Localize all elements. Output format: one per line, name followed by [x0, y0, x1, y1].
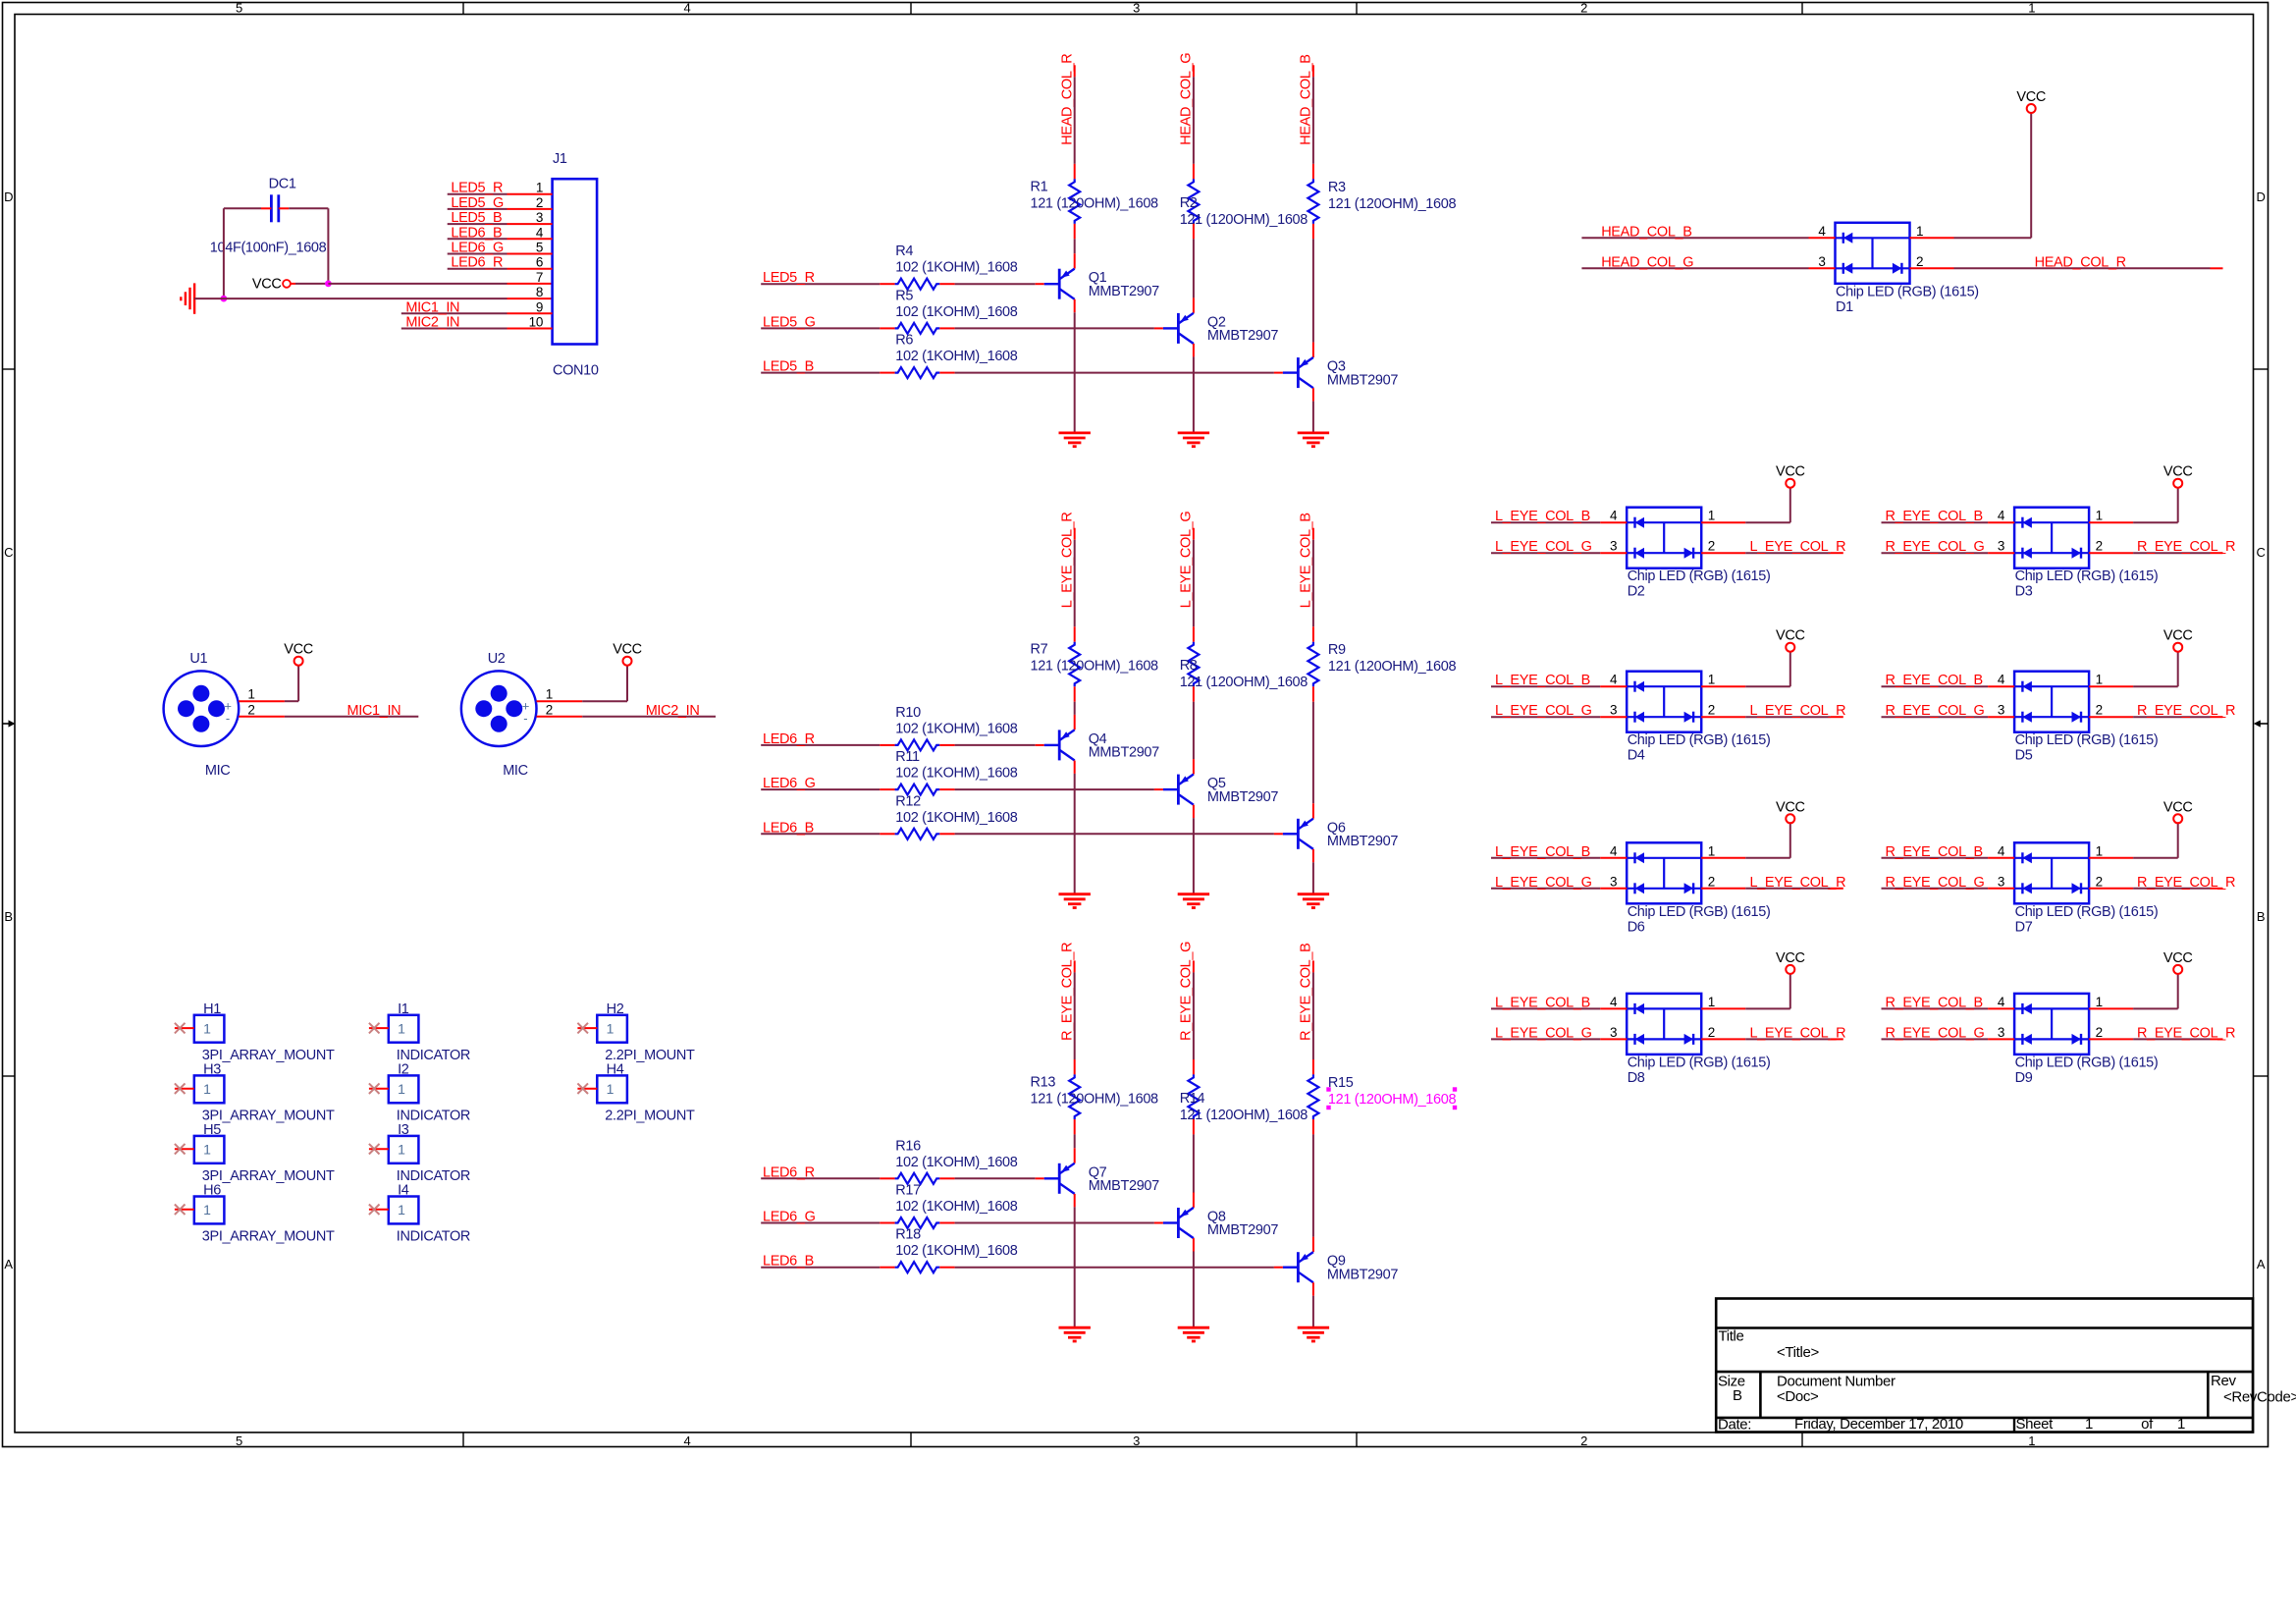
svg-text:R10: R10: [895, 705, 921, 721]
svg-text:H1: H1: [203, 1001, 221, 1017]
svg-text:R_EYE_COL_B: R_EYE_COL_B: [1886, 995, 1983, 1010]
mount part H6 3PI_ARRAY_MOUNT: [194, 1197, 225, 1224]
LED package D9 Chip LED (RGB) (1615): [2014, 994, 2089, 1055]
svg-text:3: 3: [1998, 703, 2004, 718]
svg-text:8: 8: [536, 285, 543, 299]
wire input net LED6_B to Q9 base: [761, 1267, 1283, 1269]
label R16 value: [895, 1138, 1017, 1170]
wire net LED5_R to J1 pin 1: [448, 193, 553, 195]
wire input net LED6_R to Q4 base: [761, 744, 1043, 746]
svg-text:102 (1KOHM)_1608: 102 (1KOHM)_1608: [895, 1199, 1017, 1215]
svg-text:L_EYE_COL_B: L_EYE_COL_B: [1495, 509, 1590, 524]
transistor Q1 MMBT2907: [1044, 269, 1159, 299]
wire rail L_EYE_COL_B upper: [1312, 528, 1314, 642]
svg-text:2: 2: [2096, 1025, 2103, 1040]
svg-text:B: B: [2257, 909, 2265, 924]
resistor R7: [1069, 642, 1080, 687]
svg-text:2: 2: [536, 195, 543, 210]
svg-text:H3: H3: [203, 1062, 221, 1078]
svg-text:R16: R16: [895, 1138, 921, 1154]
power symbol VCC above U2: [623, 657, 632, 666]
diode blue in D5 (pin4): [2021, 681, 2023, 692]
svg-text:HEAD_COL_R: HEAD_COL_R: [2035, 254, 2126, 270]
wire D8 pin 1 to VCC: [1701, 973, 1790, 1008]
wire input net LED6_B to Q6 base: [761, 833, 1283, 835]
svg-text:MIC2_IN: MIC2_IN: [405, 315, 459, 331]
svg-text:A: A: [2257, 1257, 2266, 1271]
wire D6 pin 1 to VCC: [1701, 823, 1790, 858]
label R17 value: [895, 1183, 1017, 1216]
svg-text:R_EYE_COL_G: R_EYE_COL_G: [1886, 539, 1985, 555]
wire net L_EYE_COL_G to D2 pin 3: [1491, 552, 1627, 554]
svg-text:R5: R5: [895, 288, 913, 303]
svg-text:-: -: [226, 711, 230, 726]
svg-text:LED6_R: LED6_R: [763, 1164, 815, 1180]
wire net MIC2_IN from U2 pin 2: [537, 716, 717, 718]
svg-text:MMBT2907: MMBT2907: [1089, 745, 1159, 761]
svg-text:VCC: VCC: [252, 276, 282, 292]
wire VCC net to J1 pin 7: [328, 283, 552, 285]
transistor Q3 MMBT2907: [1283, 357, 1398, 388]
resistor R12: [895, 829, 940, 839]
wire rail HEAD_COL_G upper: [1193, 65, 1195, 179]
svg-text:HEAD_COL_G: HEAD_COL_G: [1601, 254, 1693, 270]
ground below Q5: [1178, 893, 1209, 895]
svg-text:VCC: VCC: [2163, 464, 2193, 480]
mount part H1 3PI_ARRAY_MOUNT: [194, 1015, 225, 1043]
resistor R15: [1308, 1074, 1318, 1119]
label D7 part name: [2015, 904, 2159, 936]
diode green in D9 (pin3): [2021, 1034, 2023, 1045]
wire rail L_EYE_COL_G between R8 and Q5: [1193, 686, 1195, 774]
diode blue in D9 (pin4): [2021, 1003, 2023, 1014]
selection handles R15 value: [1326, 1087, 1457, 1109]
svg-text:Chip LED (RGB) (1615): Chip LED (RGB) (1615): [1628, 732, 1771, 748]
wire net R_EYE_COL_B to D7 pin 4: [1882, 857, 2015, 859]
power symbol VCC above D5: [2173, 643, 2182, 652]
wire net L_EYE_COL_R from D8 pin 2: [1701, 1038, 1843, 1040]
svg-text:LED6_R: LED6_R: [763, 731, 815, 747]
resistor R5: [895, 323, 940, 334]
svg-text:L_EYE_COL_B: L_EYE_COL_B: [1299, 513, 1314, 608]
diode red in D4 (pin2): [1692, 712, 1694, 723]
svg-text:D: D: [4, 189, 13, 204]
wire net R_EYE_COL_R from D3 pin 2: [2089, 552, 2222, 554]
svg-text:2: 2: [2096, 539, 2103, 554]
svg-text:MIC1_IN: MIC1_IN: [347, 703, 401, 719]
wire net HEAD_COL_R from D1 pin 2: [1910, 267, 2223, 269]
svg-text:1: 1: [398, 1081, 405, 1097]
resistor R17: [895, 1217, 940, 1228]
resistor R13: [1069, 1074, 1080, 1119]
svg-text:1: 1: [1916, 224, 1923, 239]
wire D2 pin 1 to VCC: [1701, 487, 1790, 522]
svg-text:1: 1: [2028, 0, 2035, 15]
diode red in D3 (pin2): [2080, 548, 2082, 559]
wire D5 pin 1 to VCC: [2089, 651, 2178, 686]
wire net R_EYE_COL_B to D5 pin 4: [1882, 685, 2015, 687]
svg-text:3: 3: [1998, 874, 2004, 889]
wire rail R_EYE_COL_G between R14 and Q8: [1193, 1119, 1195, 1208]
svg-text:I4: I4: [398, 1183, 409, 1199]
wire rail HEAD_COL_R upper: [1074, 65, 1076, 179]
svg-text:R_EYE_COL_R: R_EYE_COL_R: [2137, 539, 2235, 555]
svg-text:4: 4: [684, 0, 691, 15]
mount part I1 INDICATOR: [389, 1015, 419, 1043]
svg-text:D: D: [2256, 189, 2265, 204]
svg-text:L_EYE_COL_G: L_EYE_COL_G: [1495, 703, 1592, 719]
diode red in D5 (pin2): [2080, 712, 2082, 723]
wire Q1 collector to ground: [1074, 299, 1076, 433]
svg-text:6: 6: [536, 255, 543, 270]
svg-text:D3: D3: [2015, 584, 2033, 600]
svg-text:2: 2: [1580, 1434, 1587, 1448]
mount part H3 3PI_ARRAY_MOUNT: [194, 1075, 225, 1103]
svg-text:VCC: VCC: [2016, 89, 2046, 105]
connector J1 CON10: [553, 151, 599, 379]
svg-text:R_EYE_COL_G: R_EYE_COL_G: [1886, 1025, 1985, 1041]
svg-text:4: 4: [1610, 673, 1618, 687]
transistor Q6 MMBT2907: [1283, 819, 1398, 849]
wire rail HEAD_COL_R between R1 and Q1: [1074, 224, 1076, 269]
ground below Q4: [1059, 893, 1091, 895]
svg-text:<Title>: <Title>: [1777, 1344, 1819, 1361]
ground below Q1: [1059, 431, 1091, 434]
svg-text:VCC: VCC: [2163, 799, 2193, 815]
diode green in D7 (pin3): [2021, 883, 2023, 893]
diode green in D1 (pin3): [1842, 263, 1844, 274]
svg-text:D8: D8: [1628, 1070, 1645, 1086]
svg-text:3PI_ARRAY_MOUNT: 3PI_ARRAY_MOUNT: [202, 1168, 335, 1184]
svg-text:I3: I3: [398, 1122, 409, 1138]
svg-text:1: 1: [2028, 1434, 2035, 1448]
wire input net LED5_G to Q2 base: [761, 327, 1163, 329]
svg-text:4: 4: [684, 1434, 691, 1448]
svg-text:3: 3: [1818, 254, 1825, 269]
wire net L_EYE_COL_B to D2 pin 4: [1491, 521, 1627, 523]
svg-text:A: A: [4, 1257, 13, 1271]
svg-text:2: 2: [2096, 874, 2103, 889]
wire net R_EYE_COL_R from D5 pin 2: [2089, 716, 2222, 718]
resistor R14: [1188, 1074, 1199, 1119]
svg-text:Chip LED (RGB) (1615): Chip LED (RGB) (1615): [1628, 568, 1771, 584]
svg-text:L_EYE_COL_G: L_EYE_COL_G: [1495, 875, 1592, 891]
svg-text:L_EYE_COL_R: L_EYE_COL_R: [1750, 703, 1846, 719]
svg-text:LED6_G: LED6_G: [763, 1210, 816, 1225]
svg-text:DC1: DC1: [269, 177, 296, 192]
label D4 part name: [1628, 732, 1771, 764]
svg-text:MIC: MIC: [503, 763, 528, 779]
svg-text:Chip LED (RGB) (1615): Chip LED (RGB) (1615): [1628, 1055, 1771, 1070]
wire net R_EYE_COL_G to D7 pin 3: [1882, 888, 2015, 890]
svg-text:2: 2: [1708, 1025, 1715, 1040]
svg-text:4: 4: [1610, 509, 1618, 523]
power symbol VCC above D4: [1786, 643, 1794, 652]
label D5 part name: [2015, 732, 2159, 764]
wire net MIC2_IN to J1 pin 10: [401, 328, 553, 330]
wire net L_EYE_COL_G to D4 pin 3: [1491, 716, 1627, 718]
wire net LED5_B to J1 pin 3: [448, 223, 553, 225]
LED package D7 Chip LED (RGB) (1615): [2014, 842, 2089, 903]
svg-text:4: 4: [1998, 673, 2005, 687]
svg-text:LED6_B: LED6_B: [451, 225, 502, 241]
svg-text:I1: I1: [398, 1001, 409, 1017]
svg-text:3PI_ARRAY_MOUNT: 3PI_ARRAY_MOUNT: [202, 1048, 335, 1063]
svg-text:2: 2: [546, 703, 553, 718]
power symbol VCC above D2: [1786, 479, 1794, 488]
diode red in D7 (pin2): [2080, 883, 2082, 893]
wire rail HEAD_COL_B upper: [1312, 65, 1314, 179]
svg-text:1: 1: [2096, 843, 2103, 858]
svg-text:H6: H6: [203, 1183, 221, 1199]
svg-text:Sheet: Sheet: [2016, 1416, 2055, 1433]
svg-text:CON10: CON10: [553, 363, 599, 379]
svg-text:3: 3: [536, 210, 543, 225]
svg-text:1: 1: [536, 181, 543, 195]
svg-text:L_EYE_COL_G: L_EYE_COL_G: [1495, 1025, 1592, 1041]
mount part H5 3PI_ARRAY_MOUNT: [194, 1136, 225, 1163]
wire rail R_EYE_COL_G upper: [1193, 960, 1195, 1074]
wire net R_EYE_COL_B to D9 pin 4: [1882, 1007, 2015, 1009]
wire net LED5_G to J1 pin 2: [448, 208, 553, 210]
svg-text:1: 1: [398, 1020, 405, 1036]
svg-text:4: 4: [1998, 995, 2005, 1009]
svg-text:7: 7: [536, 270, 543, 285]
diode green in D6 (pin3): [1633, 883, 1635, 893]
wire rail L_EYE_COL_R upper: [1074, 528, 1076, 642]
svg-text:Friday, December 17, 2010: Friday, December 17, 2010: [1794, 1416, 1963, 1433]
ground below Q8: [1178, 1326, 1209, 1329]
LED package D8 Chip LED (RGB) (1615): [1627, 994, 1701, 1055]
svg-text:B: B: [1733, 1387, 1742, 1404]
transistor Q5 MMBT2907: [1163, 775, 1278, 805]
svg-text:LED6_G: LED6_G: [451, 241, 504, 256]
svg-text:1: 1: [247, 687, 254, 702]
svg-text:VCC: VCC: [1776, 628, 1805, 644]
wire Q5 collector to ground: [1193, 805, 1195, 894]
svg-text:LED6_B: LED6_B: [763, 820, 814, 836]
diode blue in D7 (pin4): [2021, 852, 2023, 863]
wire input net LED5_R to Q1 base: [761, 283, 1043, 285]
svg-text:121 (120OHM)_1608: 121 (120OHM)_1608: [1180, 1108, 1308, 1123]
svg-text:Chip LED (RGB) (1615): Chip LED (RGB) (1615): [2015, 732, 2159, 748]
diode green in D2 (pin3): [1633, 548, 1635, 559]
diode red in D8 (pin2): [1692, 1034, 1694, 1045]
label R5 value: [895, 288, 1017, 320]
title block: [1716, 1299, 2296, 1434]
no-connect pin of I3: [369, 1144, 389, 1155]
svg-text:R11: R11: [895, 749, 920, 765]
svg-text:3: 3: [1133, 1434, 1140, 1448]
svg-text:LED5_B: LED5_B: [763, 359, 814, 375]
wire net L_EYE_COL_R from D4 pin 2: [1701, 716, 1843, 718]
wire net R_EYE_COL_B to D3 pin 4: [1882, 521, 2015, 523]
diode blue in D2 (pin4): [1633, 517, 1635, 528]
svg-text:R_EYE_COL_B: R_EYE_COL_B: [1886, 844, 1983, 860]
capacitor DC1: [269, 177, 296, 223]
svg-text:D9: D9: [2015, 1070, 2033, 1086]
microphone U1 MIC: [164, 671, 240, 746]
svg-text:D2: D2: [1628, 584, 1645, 600]
wire net L_EYE_COL_B to D8 pin 4: [1491, 1007, 1627, 1009]
svg-text:4: 4: [1610, 995, 1618, 1009]
label R11 value: [895, 749, 1017, 782]
svg-text:L_EYE_COL_G: L_EYE_COL_G: [1179, 512, 1195, 609]
svg-text:102 (1KOHM)_1608: 102 (1KOHM)_1608: [895, 1155, 1017, 1170]
wire net HEAD_COL_B to D1 pin 4: [1581, 237, 1835, 239]
svg-text:R13: R13: [1031, 1074, 1056, 1090]
transistor Q2 MMBT2907: [1163, 313, 1278, 344]
svg-text:HEAD_COL_G: HEAD_COL_G: [1179, 53, 1195, 145]
diode blue in D3 (pin4): [2021, 517, 2023, 528]
svg-text:9: 9: [536, 299, 543, 314]
svg-text:LED5_G: LED5_G: [763, 314, 816, 330]
ground below Q6: [1298, 893, 1329, 895]
resistor R3: [1308, 179, 1318, 224]
wire net LED6_B to J1 pin 4: [448, 238, 553, 240]
svg-text:U1: U1: [189, 651, 207, 667]
svg-text:3: 3: [1610, 874, 1617, 889]
svg-text:C: C: [4, 545, 13, 560]
svg-text:4: 4: [1818, 224, 1826, 239]
svg-text:121 (120OHM)_1608: 121 (120OHM)_1608: [1328, 659, 1457, 675]
transistor Q8 MMBT2907: [1163, 1208, 1278, 1238]
svg-text:R_EYE_COL_G: R_EYE_COL_G: [1179, 942, 1195, 1041]
svg-text:1: 1: [1708, 673, 1715, 687]
svg-text:D6: D6: [1628, 919, 1645, 935]
ground below Q3: [1298, 431, 1329, 434]
svg-text:-: -: [523, 711, 527, 726]
label R4 value: [895, 243, 1017, 276]
svg-text:B: B: [4, 909, 12, 924]
svg-text:1: 1: [398, 1202, 405, 1217]
power symbol VCC above D1: [2027, 104, 2036, 113]
svg-text:102 (1KOHM)_1608: 102 (1KOHM)_1608: [895, 260, 1017, 276]
wire net L_EYE_COL_G to D8 pin 3: [1491, 1038, 1627, 1040]
diode red in D6 (pin2): [1692, 883, 1694, 893]
wire rail L_EYE_COL_R between R7 and Q4: [1074, 686, 1076, 730]
label D2 part name: [1628, 568, 1771, 600]
svg-text:D1: D1: [1836, 299, 1853, 315]
wire input net LED6_G to Q5 base: [761, 788, 1163, 790]
label R18 value: [895, 1227, 1017, 1260]
wire rail L_EYE_COL_B between R9 and Q6: [1312, 686, 1314, 818]
svg-text:Title: Title: [1719, 1328, 1744, 1345]
label R10 value: [895, 705, 1017, 737]
power symbol VCC above D3: [2173, 479, 2182, 488]
resistor R6: [895, 367, 940, 378]
svg-text:Date:: Date:: [1718, 1417, 1751, 1434]
resistor R18: [895, 1262, 940, 1272]
svg-text:1: 1: [1708, 509, 1715, 523]
svg-text:102 (1KOHM)_1608: 102 (1KOHM)_1608: [895, 304, 1017, 320]
svg-text:HEAD_COL_B: HEAD_COL_B: [1601, 224, 1691, 240]
svg-text:VCC: VCC: [284, 642, 313, 658]
svg-text:L_EYE_COL_R: L_EYE_COL_R: [1750, 539, 1846, 555]
mount part I2 INDICATOR: [389, 1075, 419, 1103]
svg-text:VCC: VCC: [2163, 950, 2193, 966]
svg-text:<Doc>: <Doc>: [1777, 1388, 1819, 1405]
svg-text:2.2PI_MOUNT: 2.2PI_MOUNT: [605, 1109, 695, 1124]
svg-text:121 (120OHM)_1608: 121 (120OHM)_1608: [1031, 195, 1159, 211]
diode blue in D8 (pin4): [1633, 1003, 1635, 1014]
svg-text:1: 1: [546, 687, 553, 702]
LED package D1 Chip LED (RGB) (1615): [1836, 223, 1910, 284]
wire net R_EYE_COL_G to D5 pin 3: [1882, 716, 2015, 718]
svg-text:I2: I2: [398, 1062, 409, 1078]
wire net MIC1_IN to J1 pin 9: [401, 312, 553, 314]
svg-text:3: 3: [1610, 703, 1617, 718]
svg-text:4: 4: [1610, 843, 1618, 858]
svg-text:MIC2_IN: MIC2_IN: [646, 703, 700, 719]
svg-text:<RevCode>: <RevCode>: [2223, 1389, 2296, 1406]
wire D3 pin 1 to VCC: [2089, 487, 2178, 522]
wire Q8 collector to ground: [1193, 1238, 1195, 1327]
svg-text:VCC: VCC: [1776, 464, 1805, 480]
svg-text:1: 1: [2085, 1416, 2093, 1433]
resistor R1: [1069, 179, 1080, 224]
wire net R_EYE_COL_R from D7 pin 2: [2089, 888, 2222, 890]
microphone U2 MIC: [461, 671, 537, 746]
svg-text:LED6_R: LED6_R: [451, 255, 503, 271]
svg-text:MIC1_IN: MIC1_IN: [405, 299, 459, 315]
junction on GND net: [221, 296, 228, 302]
svg-text:MMBT2907: MMBT2907: [1207, 328, 1278, 344]
svg-text:HEAD_COL_R: HEAD_COL_R: [1060, 54, 1076, 145]
label R6 value: [895, 333, 1017, 365]
wire Q2 collector to ground: [1193, 344, 1195, 433]
diode green in D4 (pin3): [1633, 712, 1635, 723]
svg-text:3PI_ARRAY_MOUNT: 3PI_ARRAY_MOUNT: [202, 1229, 335, 1245]
svg-text:Document Number: Document Number: [1777, 1374, 1896, 1390]
svg-text:1: 1: [2096, 509, 2103, 523]
label D1 part name: [1836, 284, 1979, 315]
svg-text:Chip LED (RGB) (1615): Chip LED (RGB) (1615): [2015, 904, 2159, 920]
resistor R2: [1188, 179, 1199, 224]
wire rail R_EYE_COL_R between R13 and Q7: [1074, 1119, 1076, 1163]
svg-text:R4: R4: [895, 243, 913, 259]
wire VCC stub to junction: [291, 283, 328, 285]
wire U1 pin 1 to VCC: [239, 665, 298, 701]
wire net L_EYE_COL_B to D6 pin 4: [1491, 857, 1627, 859]
svg-text:4: 4: [536, 225, 544, 240]
svg-text:5: 5: [536, 241, 543, 255]
wire net L_EYE_COL_G to D6 pin 3: [1491, 888, 1627, 890]
svg-text:C: C: [2256, 545, 2265, 560]
no-connect pin of H2: [577, 1023, 597, 1034]
svg-text:L_EYE_COL_R: L_EYE_COL_R: [1060, 512, 1076, 608]
svg-text:VCC: VCC: [1776, 799, 1805, 815]
svg-text:R17: R17: [895, 1183, 921, 1199]
svg-text:Chip LED (RGB) (1615): Chip LED (RGB) (1615): [1836, 284, 1979, 299]
wire GND net to J1 pin 8: [194, 298, 552, 299]
svg-text:R8: R8: [1180, 658, 1198, 674]
wire input net LED6_R to Q7 base: [761, 1177, 1043, 1179]
wire net R_EYE_COL_G to D9 pin 3: [1882, 1038, 2015, 1040]
svg-text:3: 3: [1133, 0, 1140, 15]
wire rail HEAD_COL_G between R2 and Q2: [1193, 224, 1195, 313]
svg-text:R1: R1: [1031, 179, 1048, 194]
svg-text:LED5_B: LED5_B: [451, 210, 502, 226]
LED package D5 Chip LED (RGB) (1615): [2014, 672, 2089, 732]
svg-text:2: 2: [1708, 874, 1715, 889]
wire net L_EYE_COL_R from D6 pin 2: [1701, 888, 1843, 890]
no-connect pin of H3: [175, 1083, 194, 1094]
svg-text:2: 2: [247, 703, 254, 718]
svg-text:L_EYE_COL_G: L_EYE_COL_G: [1495, 539, 1592, 555]
mount part I3 INDICATOR: [389, 1136, 419, 1163]
svg-text:LED5_R: LED5_R: [451, 181, 503, 196]
